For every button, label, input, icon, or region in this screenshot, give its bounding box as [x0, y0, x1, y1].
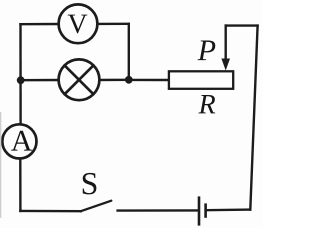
resistor R body [169, 71, 233, 89]
node junction dot right [125, 76, 133, 84]
wire vertical right of voltmeter down to node B [128, 24, 130, 80]
wire lamp right to node [98, 79, 129, 82]
wire slider vertical [224, 26, 226, 60]
wire bottom-left to switch [20, 210, 80, 213]
battery long plate [198, 196, 201, 225]
resistor R label [198, 95, 215, 113]
voltmeter U1 circle [59, 4, 98, 43]
lamp L1 circle [59, 59, 100, 100]
wire right vertical [250, 26, 257, 210]
node junction dot left [17, 76, 25, 84]
wire slider top horizontal [226, 24, 258, 26]
wire switch to battery [118, 209, 198, 212]
wire top-right horizontal [97, 23, 128, 26]
lamp L1 cross [65, 65, 94, 94]
slider arrowhead [221, 59, 230, 71]
switch S blade [81, 201, 112, 212]
wire battery to right corner [207, 208, 251, 211]
wire left vertical upper segment [19, 24, 22, 124]
scan edge artifact [0, 112, 2, 218]
wire lamp right to rheostat [129, 79, 169, 81]
wire left vertical lower segment [19, 158, 22, 211]
ammeter A1 circle [2, 124, 36, 158]
voltmeter V label [68, 15, 88, 34]
slider P label [198, 40, 216, 60]
wire lamp left [21, 79, 59, 82]
switch S label [83, 173, 97, 195]
wire top-left horizontal [21, 23, 59, 26]
ammeter A label [11, 131, 32, 151]
battery short plate [204, 203, 207, 217]
